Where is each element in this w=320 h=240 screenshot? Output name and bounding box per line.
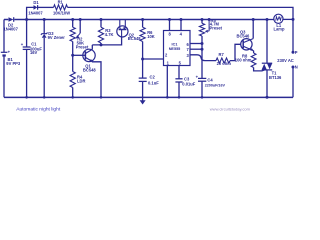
- label 230V AC: [277, 58, 294, 63]
- node P terminal: [292, 19, 298, 54]
- svg-text:20 ohm: 20 ohm: [217, 61, 232, 66]
- transistor Q3 BC546: [237, 29, 254, 51]
- pin 6 label: [187, 42, 190, 47]
- battery B1 9V PP3: [1, 20, 21, 98]
- resistor R8 100 ohm: [235, 53, 256, 68]
- resistor R6 10K: [140, 18, 155, 59]
- svg-text:NE555: NE555: [169, 47, 181, 51]
- node N terminal: [292, 65, 298, 98]
- pin 7 label: [187, 47, 190, 52]
- svg-text:BC546: BC546: [237, 33, 250, 38]
- wire triac gate: [254, 68, 266, 71]
- wire Q1 collector: [91, 45, 93, 50]
- wire bottom rail: [4, 96, 293, 98]
- zener diode D3 9V: [41, 18, 65, 99]
- wire top supply rail: [4, 19, 267, 21]
- svg-text:R7: R7: [219, 52, 225, 57]
- svg-text:2200uF/16V: 2200uF/16V: [205, 83, 226, 87]
- resistor R7 20 ohm: [216, 52, 231, 66]
- label watermark: [210, 107, 251, 112]
- label caption: [16, 106, 61, 112]
- svg-text:10K/10W: 10K/10W: [53, 11, 70, 16]
- svg-text:C2: C2: [150, 75, 156, 80]
- svg-text:0.1uF: 0.1uF: [148, 81, 159, 86]
- svg-text:230V AC: 230V AC: [277, 58, 294, 63]
- preset arrow R5: [205, 18, 211, 33]
- svg-text:Preset: Preset: [210, 26, 223, 31]
- wire pin 2: [143, 58, 164, 60]
- svg-text:www.circuitstoday.com: www.circuitstoday.com: [210, 107, 251, 112]
- resistor R1 10K/10W: [53, 0, 70, 16]
- wire R7 to Q3 base: [230, 44, 241, 60]
- preset resistor R2 50K: [70, 18, 89, 55]
- capacitor C4 2200uF/16V: [196, 49, 226, 98]
- wire pin 1 to ground: [166, 66, 169, 99]
- transistor Q2 BC548: [117, 20, 141, 42]
- wire pin 8 stub: [168, 18, 171, 31]
- svg-text:9V Zener: 9V Zener: [48, 35, 66, 40]
- svg-text:BT136: BT136: [269, 75, 282, 80]
- wire pin 7 stub: [190, 48, 204, 51]
- svg-text:100 ohm: 100 ohm: [235, 58, 252, 63]
- pin 3 label: [187, 53, 190, 58]
- svg-text:1N4007: 1N4007: [28, 10, 43, 15]
- svg-text:0.01uF: 0.01uF: [182, 81, 195, 86]
- ground: [140, 97, 146, 104]
- wire pin 3 stub: [190, 55, 216, 61]
- capacitor C1 100uF 16V: [21, 20, 43, 99]
- svg-text:4.7K: 4.7K: [105, 32, 114, 37]
- svg-text:LDR: LDR: [77, 79, 85, 84]
- triac T1 BT136: [262, 20, 282, 99]
- wire Q3 collector: [252, 18, 255, 39]
- wire pin 6 stub: [190, 42, 204, 45]
- wire Q1-collector/R3/Q2-base node: [92, 37, 121, 46]
- wire charger branch: [27, 7, 293, 19]
- diode D1 1N4007: [28, 0, 43, 15]
- op-amp U1 IC1 NE555 box: [164, 31, 191, 66]
- LDR R4: [70, 54, 85, 99]
- svg-text:Lamp: Lamp: [274, 26, 285, 31]
- svg-text:1N4007: 1N4007: [4, 26, 19, 31]
- pin 5 label: [179, 61, 182, 66]
- wire Q3 emitter: [252, 51, 255, 54]
- preset arrow R2: [76, 18, 82, 39]
- svg-text:C4: C4: [207, 77, 213, 82]
- svg-text:BC548: BC548: [83, 68, 96, 73]
- svg-text:16V: 16V: [30, 50, 38, 55]
- wire pin 4 stub: [180, 18, 183, 31]
- svg-text:N: N: [295, 65, 298, 70]
- pin 2 label: [165, 53, 168, 58]
- node rail-triac-lamp junction: [266, 18, 269, 21]
- diode D2 1N4007: [4, 17, 19, 31]
- resistor R3 4.7K: [98, 18, 113, 45]
- svg-text:P: P: [295, 50, 298, 55]
- svg-text:Preset: Preset: [76, 45, 89, 50]
- preset resistor R5 4.7M: [199, 18, 222, 49]
- svg-text:IC1: IC1: [172, 42, 178, 46]
- transistor Q1 BC548: [73, 49, 97, 72]
- pin 8 label: [168, 31, 171, 36]
- svg-text:Automatic night light: Automatic night light: [16, 106, 61, 112]
- capacitor C3 0.01uF: [175, 66, 195, 99]
- svg-text:9V PP3: 9V PP3: [6, 61, 21, 66]
- svg-text:D1: D1: [33, 0, 39, 5]
- lamp L1: [267, 14, 295, 31]
- svg-text:10K: 10K: [147, 34, 155, 39]
- capacitor C2 0.1uF: [139, 59, 159, 97]
- node rail-C1 junction: [25, 18, 28, 21]
- pin 1 label: [167, 61, 170, 66]
- svg-text:R1: R1: [58, 0, 64, 5]
- pin 4 label: [180, 31, 183, 36]
- node pin2 junction: [141, 58, 144, 61]
- wire Q1 emitter: [92, 62, 102, 99]
